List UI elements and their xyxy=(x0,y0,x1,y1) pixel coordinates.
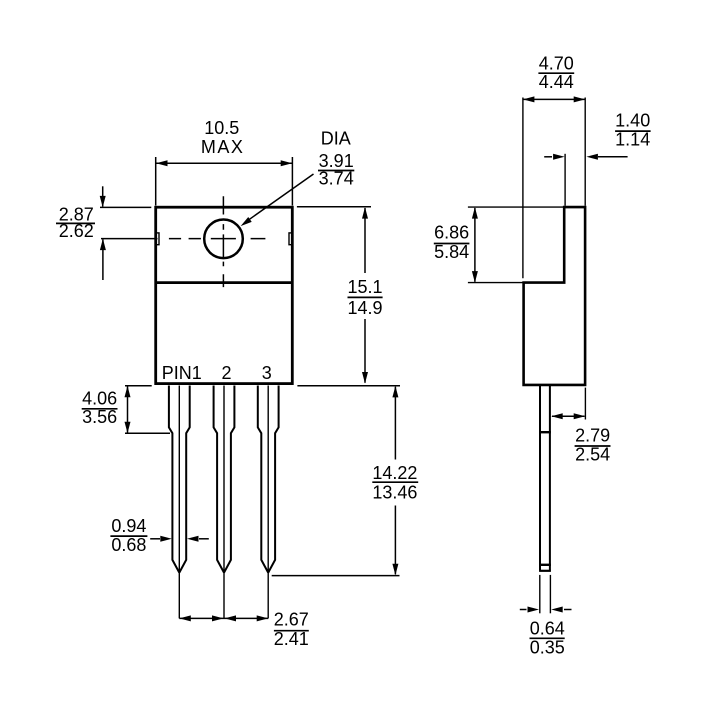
pin 2 center line xyxy=(223,386,225,619)
side view lead lower tick xyxy=(539,564,551,566)
dimension 1.40/1.14: arrows xyxy=(544,156,552,158)
dimension 2.87/2.62: lower arrow xyxy=(102,240,104,281)
svg-text:5.84: 5.84 xyxy=(434,242,469,262)
dimension 10.5 MAX: extension lines xyxy=(155,157,157,206)
pin 2 outline xyxy=(214,386,235,573)
dimension 15.1/14.9: extension line xyxy=(297,206,371,208)
svg-text:0.35: 0.35 xyxy=(530,638,565,658)
horizontal center line through hole xyxy=(101,238,265,240)
svg-text:4.06: 4.06 xyxy=(82,389,117,409)
svg-text:3.74: 3.74 xyxy=(319,169,354,189)
side view lead bottom edge xyxy=(539,570,551,572)
svg-text:DIA: DIA xyxy=(321,128,351,148)
dimension 0.64/0.35: extension lines xyxy=(539,575,541,613)
dimension 14.22/13.46: top extension line xyxy=(297,385,400,387)
dimension 4.06/3.56: dimension line with arrows xyxy=(127,387,129,433)
front view tab/body boundary line xyxy=(156,281,293,284)
left side notch xyxy=(156,233,159,245)
svg-text:0.68: 0.68 xyxy=(111,535,146,555)
dimension 2.87/2.62: extension line xyxy=(100,206,151,208)
dimension 14.22/13.46: bottom extension line xyxy=(272,575,400,577)
dimension 14.22/13.46: dimension line with arrows xyxy=(394,387,396,575)
dimension 0.94/0.68: arrows xyxy=(150,538,160,540)
svg-text:0.94: 0.94 xyxy=(111,516,146,536)
svg-text:10.5: 10.5 xyxy=(204,118,239,138)
svg-text:2.67: 2.67 xyxy=(274,610,309,630)
dimension 1.40/1.14: extension line xyxy=(564,154,566,206)
dimension 15.1/14.9: dimension line with arrows xyxy=(364,208,366,383)
svg-text:1.40: 1.40 xyxy=(615,111,650,131)
svg-text:2.62: 2.62 xyxy=(59,221,94,241)
dimension 4.70/4.44: extension lines xyxy=(522,98,524,279)
svg-text:3: 3 xyxy=(262,363,272,383)
dimension 2.87/2.62: upper arrow xyxy=(102,186,104,206)
svg-text:4.44: 4.44 xyxy=(539,72,574,92)
dimension 2.67/2.41: dimension line with two arrow pairs xyxy=(179,617,268,619)
dimension 2.79/2.54: extension line xyxy=(584,388,586,420)
dimension 4.06/3.56: extension lines xyxy=(125,385,152,387)
right side notch xyxy=(289,233,292,245)
side view lead left edge xyxy=(539,386,541,571)
svg-text:PIN1: PIN1 xyxy=(162,363,202,383)
side view package outline xyxy=(524,207,586,385)
dimension 2.79/2.54: dimension line with arrows xyxy=(552,415,585,417)
dimension DIA 3.91/3.74: leader arrow to hole xyxy=(245,174,314,223)
svg-text:3.56: 3.56 xyxy=(82,407,117,427)
side view lead upper tick xyxy=(539,431,551,433)
svg-text:4.70: 4.70 xyxy=(539,54,574,74)
svg-text:6.86: 6.86 xyxy=(434,223,469,243)
pin 3 outline xyxy=(258,386,279,573)
dimension 10.5 MAX: dimension line with arrows xyxy=(156,162,292,164)
svg-text:1.14: 1.14 xyxy=(615,130,650,150)
svg-text:13.46: 13.46 xyxy=(372,482,417,502)
pin 1 center line xyxy=(178,386,180,619)
svg-text:0.64: 0.64 xyxy=(530,619,565,639)
svg-text:14.9: 14.9 xyxy=(347,298,382,318)
svg-text:MAX: MAX xyxy=(201,137,245,157)
dimension 6.86/5.84: dimension line with arrows xyxy=(474,208,476,282)
svg-text:2.41: 2.41 xyxy=(274,629,309,649)
svg-text:2.79: 2.79 xyxy=(575,425,610,445)
dimension 0.64/0.35: arrows xyxy=(520,609,527,611)
vertical center line through hole xyxy=(222,196,224,287)
svg-text:2.54: 2.54 xyxy=(575,445,610,465)
svg-text:15.1: 15.1 xyxy=(347,277,382,297)
dimension 6.86/5.84: extension lines xyxy=(468,206,564,208)
pin 3 center line xyxy=(267,386,269,619)
side view lead right edge xyxy=(549,386,551,571)
front view package body outline xyxy=(156,207,293,383)
mounting hole xyxy=(204,220,243,259)
pin 1 outline xyxy=(169,386,190,573)
svg-text:14.22: 14.22 xyxy=(372,463,417,483)
dimension 4.70/4.44: dimension line with arrows xyxy=(524,98,585,100)
svg-text:2: 2 xyxy=(221,363,231,383)
